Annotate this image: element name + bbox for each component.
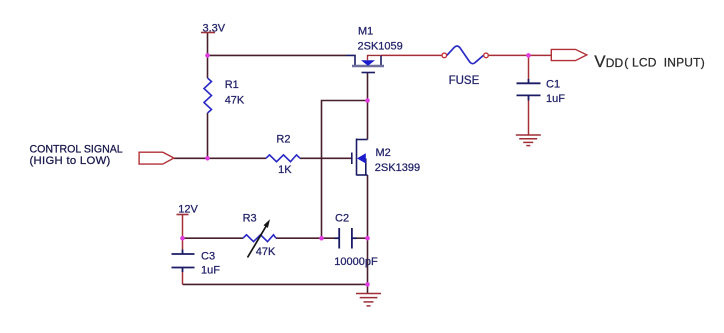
svg-text:3.3V: 3.3V [203,22,226,34]
svg-text:CONTROL SIGNAL: CONTROL SIGNAL [30,144,123,156]
svg-text:(HIGH to LOW): (HIGH to LOW) [30,155,111,167]
svg-text:1K: 1K [278,164,292,176]
svg-text:R1: R1 [225,79,239,91]
svg-text:47K: 47K [256,246,276,258]
svg-text:FUSE: FUSE [449,75,480,87]
svg-text:10000pF: 10000pF [334,256,378,268]
svg-text:( LCD INPUT): ( LCD INPUT) [624,56,705,70]
svg-text:C2: C2 [335,213,349,225]
svg-text:R2: R2 [276,133,290,145]
svg-text:C1: C1 [546,79,560,91]
svg-text:M2: M2 [376,147,391,159]
svg-text:C3: C3 [201,250,215,262]
svg-text:M1: M1 [358,26,373,38]
svg-text:R3: R3 [243,212,257,224]
svg-text:2SK1399: 2SK1399 [375,162,420,174]
svg-text:DD: DD [606,56,624,70]
svg-text:47K: 47K [225,95,245,107]
svg-text:1uF: 1uF [201,265,220,277]
svg-text:V: V [594,52,606,71]
svg-text:2SK1059: 2SK1059 [358,41,403,53]
svg-text:1uF: 1uF [546,93,565,105]
svg-text:12V: 12V [178,203,198,215]
